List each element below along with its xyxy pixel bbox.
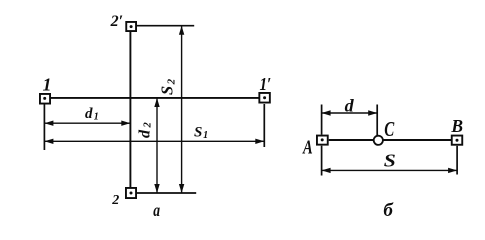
- svg-text:А: А: [302, 137, 313, 159]
- extension line above A: [321, 105, 323, 135]
- extension line below B: [456, 146, 458, 175]
- svg-text:C: C: [384, 117, 395, 141]
- dimension d1 line: [44, 121, 130, 126]
- extension line below 1: [43, 105, 45, 151]
- marker square 1': [259, 93, 270, 103]
- tick above C: [376, 105, 378, 136]
- svg-text:1′: 1′: [260, 74, 272, 94]
- marker square 1: [40, 94, 50, 104]
- svg-text:2: 2: [111, 193, 119, 208]
- wire main horizontal 1-1': [51, 97, 259, 99]
- marker square 2': [126, 22, 136, 31]
- dimension d line: [322, 110, 378, 115]
- node C circle: [374, 136, 383, 145]
- dimension S line: [322, 168, 458, 173]
- marker square 2: [126, 188, 136, 198]
- dimension S1 line: [44, 139, 264, 144]
- dimension d2 line: [154, 98, 159, 193]
- extension line below 1': [263, 104, 265, 147]
- dimension S2 line: [179, 26, 184, 193]
- svg-text:d: d: [345, 95, 355, 115]
- wire top extension from 2': [137, 25, 194, 27]
- wire A-C: [329, 139, 374, 141]
- marker square B: [452, 136, 463, 145]
- svg-text:S: S: [384, 150, 396, 170]
- marker square A: [317, 136, 328, 145]
- svg-text:а: а: [153, 200, 160, 218]
- wire bottom extension from 2: [137, 192, 196, 194]
- extension line below A: [321, 146, 323, 176]
- svg-text:2′: 2′: [110, 13, 124, 30]
- svg-text:В: В: [450, 116, 463, 136]
- svg-text:1: 1: [43, 74, 52, 94]
- wire main vertical 2'-2: [129, 32, 131, 187]
- svg-text:б: б: [383, 200, 394, 218]
- wire C-B: [383, 139, 452, 141]
